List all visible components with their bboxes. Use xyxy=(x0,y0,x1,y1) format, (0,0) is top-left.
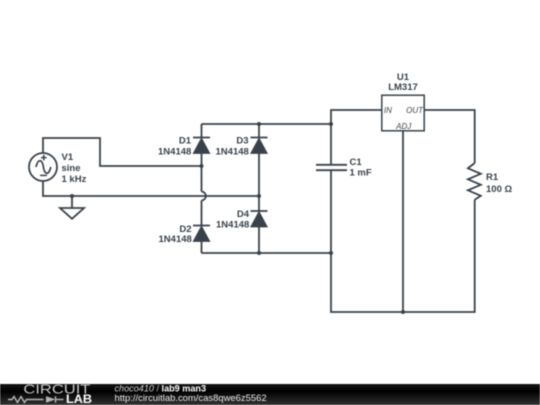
svg-text:choco410 / lab9 man3: choco410 / lab9 man3 xyxy=(115,383,207,393)
node ADJ bottom xyxy=(401,310,405,314)
svg-text:U1: U1 xyxy=(397,72,410,83)
svg-text:1N4148: 1N4148 xyxy=(159,234,192,245)
ground xyxy=(60,196,84,219)
svg-text:sine: sine xyxy=(62,163,81,174)
regulator U1 LM317 box xyxy=(382,95,424,131)
wire top rail xyxy=(202,123,332,125)
svg-text:1N4148: 1N4148 xyxy=(216,146,249,157)
node bridge mid-right xyxy=(257,194,261,198)
wire R1 to bottom xyxy=(331,200,475,312)
wire ADJ down xyxy=(402,131,404,313)
diode D2 xyxy=(193,200,210,253)
wire V1 minus to bridge mid-right xyxy=(43,181,259,196)
diode D1 xyxy=(193,124,210,166)
voltage source V1 xyxy=(29,153,57,181)
node top rail D3 xyxy=(257,122,261,126)
svg-text:1 kHz: 1 kHz xyxy=(62,174,87,185)
svg-text:V1: V1 xyxy=(62,152,74,163)
CircuitLab logo symbol xyxy=(8,396,64,403)
wire V1 plus to bridge mid-left xyxy=(43,138,202,166)
diode D3 xyxy=(251,124,268,196)
svg-text:1N4148: 1N4148 xyxy=(216,219,249,230)
wire left branch to D2 xyxy=(201,166,203,192)
node bottom rail C1 xyxy=(329,251,333,255)
wire C1 to IN xyxy=(331,110,382,124)
capacitor C1 xyxy=(316,124,347,253)
svg-text:D3: D3 xyxy=(236,136,248,147)
svg-text:C1: C1 xyxy=(350,157,363,168)
wire hop crossing over bottom wire xyxy=(202,192,206,201)
node ground tap xyxy=(70,194,74,198)
svg-text:100 Ω: 100 Ω xyxy=(486,184,512,195)
node bridge mid-left xyxy=(200,164,204,168)
svg-text:LM317: LM317 xyxy=(388,82,418,93)
svg-text:http://circuitlab.com/cas8qwe6: http://circuitlab.com/cas8qwe6z5562 xyxy=(115,393,267,404)
svg-text:LAB: LAB xyxy=(66,394,92,405)
svg-text:D1: D1 xyxy=(179,136,192,147)
node bottom rail D4 xyxy=(257,251,261,255)
wire OUT to R1 xyxy=(424,110,475,163)
resistor R1 xyxy=(468,163,481,200)
node top rail C1 xyxy=(329,122,333,126)
svg-text:1N4148: 1N4148 xyxy=(158,146,191,157)
svg-text:D4: D4 xyxy=(237,209,250,220)
svg-text:1 mF: 1 mF xyxy=(350,168,372,179)
diode D4 xyxy=(251,196,268,253)
wire bottom rail xyxy=(202,252,332,254)
svg-text:R1: R1 xyxy=(486,172,499,183)
svg-text:IN: IN xyxy=(384,106,392,115)
svg-text:OUT: OUT xyxy=(406,106,424,115)
svg-text:ADJ: ADJ xyxy=(395,122,412,131)
